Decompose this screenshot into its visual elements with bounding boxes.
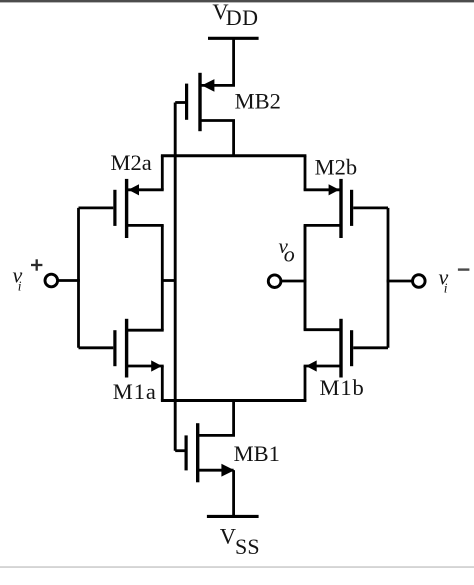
svg-text:M2b: M2b	[315, 155, 358, 180]
svg-text:M1b: M1b	[320, 375, 365, 400]
wire MB1 source to VSS	[232, 470, 235, 516]
wire left gate bus	[77, 208, 80, 348]
transistor MB1	[175, 423, 235, 482]
wire gate bias line MB2 to MB1	[174, 103, 177, 451]
label vo	[279, 234, 295, 267]
wire top rail to M2a source	[161, 156, 164, 190]
VSS power rail	[207, 515, 259, 518]
label vi-	[439, 265, 470, 296]
wire top rail to M2b source	[304, 156, 307, 190]
wire bottom rail to MB1 drain	[232, 401, 235, 436]
wire M2a drain to M1a drain (left drain bus)	[161, 225, 164, 330]
wire vi- to right gate bus	[387, 280, 413, 283]
wire right gate bus	[387, 208, 390, 348]
wire VDD to MB2 source	[232, 38, 235, 85]
transistor M1a	[79, 319, 164, 378]
wire MB2 drain to top rail	[232, 121, 235, 156]
input terminal vi+	[45, 274, 58, 287]
wire left drains to gate bias line	[162, 279, 175, 282]
svg-text:MB1: MB1	[234, 441, 280, 466]
wire top rail (M2a/M2b sources)	[161, 154, 307, 157]
VDD power rail	[208, 37, 259, 40]
wire M1b source to bottom rail	[304, 366, 307, 401]
svg-text:DD: DD	[226, 5, 259, 30]
label VDD	[212, 0, 258, 30]
transistor MB2	[175, 73, 235, 131]
wire M1a source to bottom rail	[161, 366, 164, 401]
svg-text:M1a: M1a	[113, 379, 157, 404]
svg-text:i: i	[18, 279, 22, 294]
wire vi+ to left gate bus	[58, 279, 80, 282]
wire bottom rail (M1a/M1b sources)	[161, 399, 307, 402]
svg-text:i: i	[444, 281, 448, 296]
wire vo to right drain bus	[281, 280, 307, 283]
transistor M1b	[304, 319, 388, 378]
transistor M2b	[304, 179, 388, 238]
input terminal vi-	[413, 275, 426, 288]
output terminal vo	[268, 275, 281, 288]
transistor M2a	[79, 179, 164, 238]
svg-text:SS: SS	[235, 534, 260, 559]
label VSS	[220, 523, 260, 559]
svg-text:V: V	[220, 523, 236, 548]
svg-text:M2a: M2a	[111, 150, 152, 175]
svg-text:o: o	[284, 242, 295, 267]
wire M2b drain to M1b drain (right drain bus)	[304, 225, 307, 329]
label vi+	[13, 259, 43, 293]
svg-text:MB2: MB2	[235, 89, 281, 114]
